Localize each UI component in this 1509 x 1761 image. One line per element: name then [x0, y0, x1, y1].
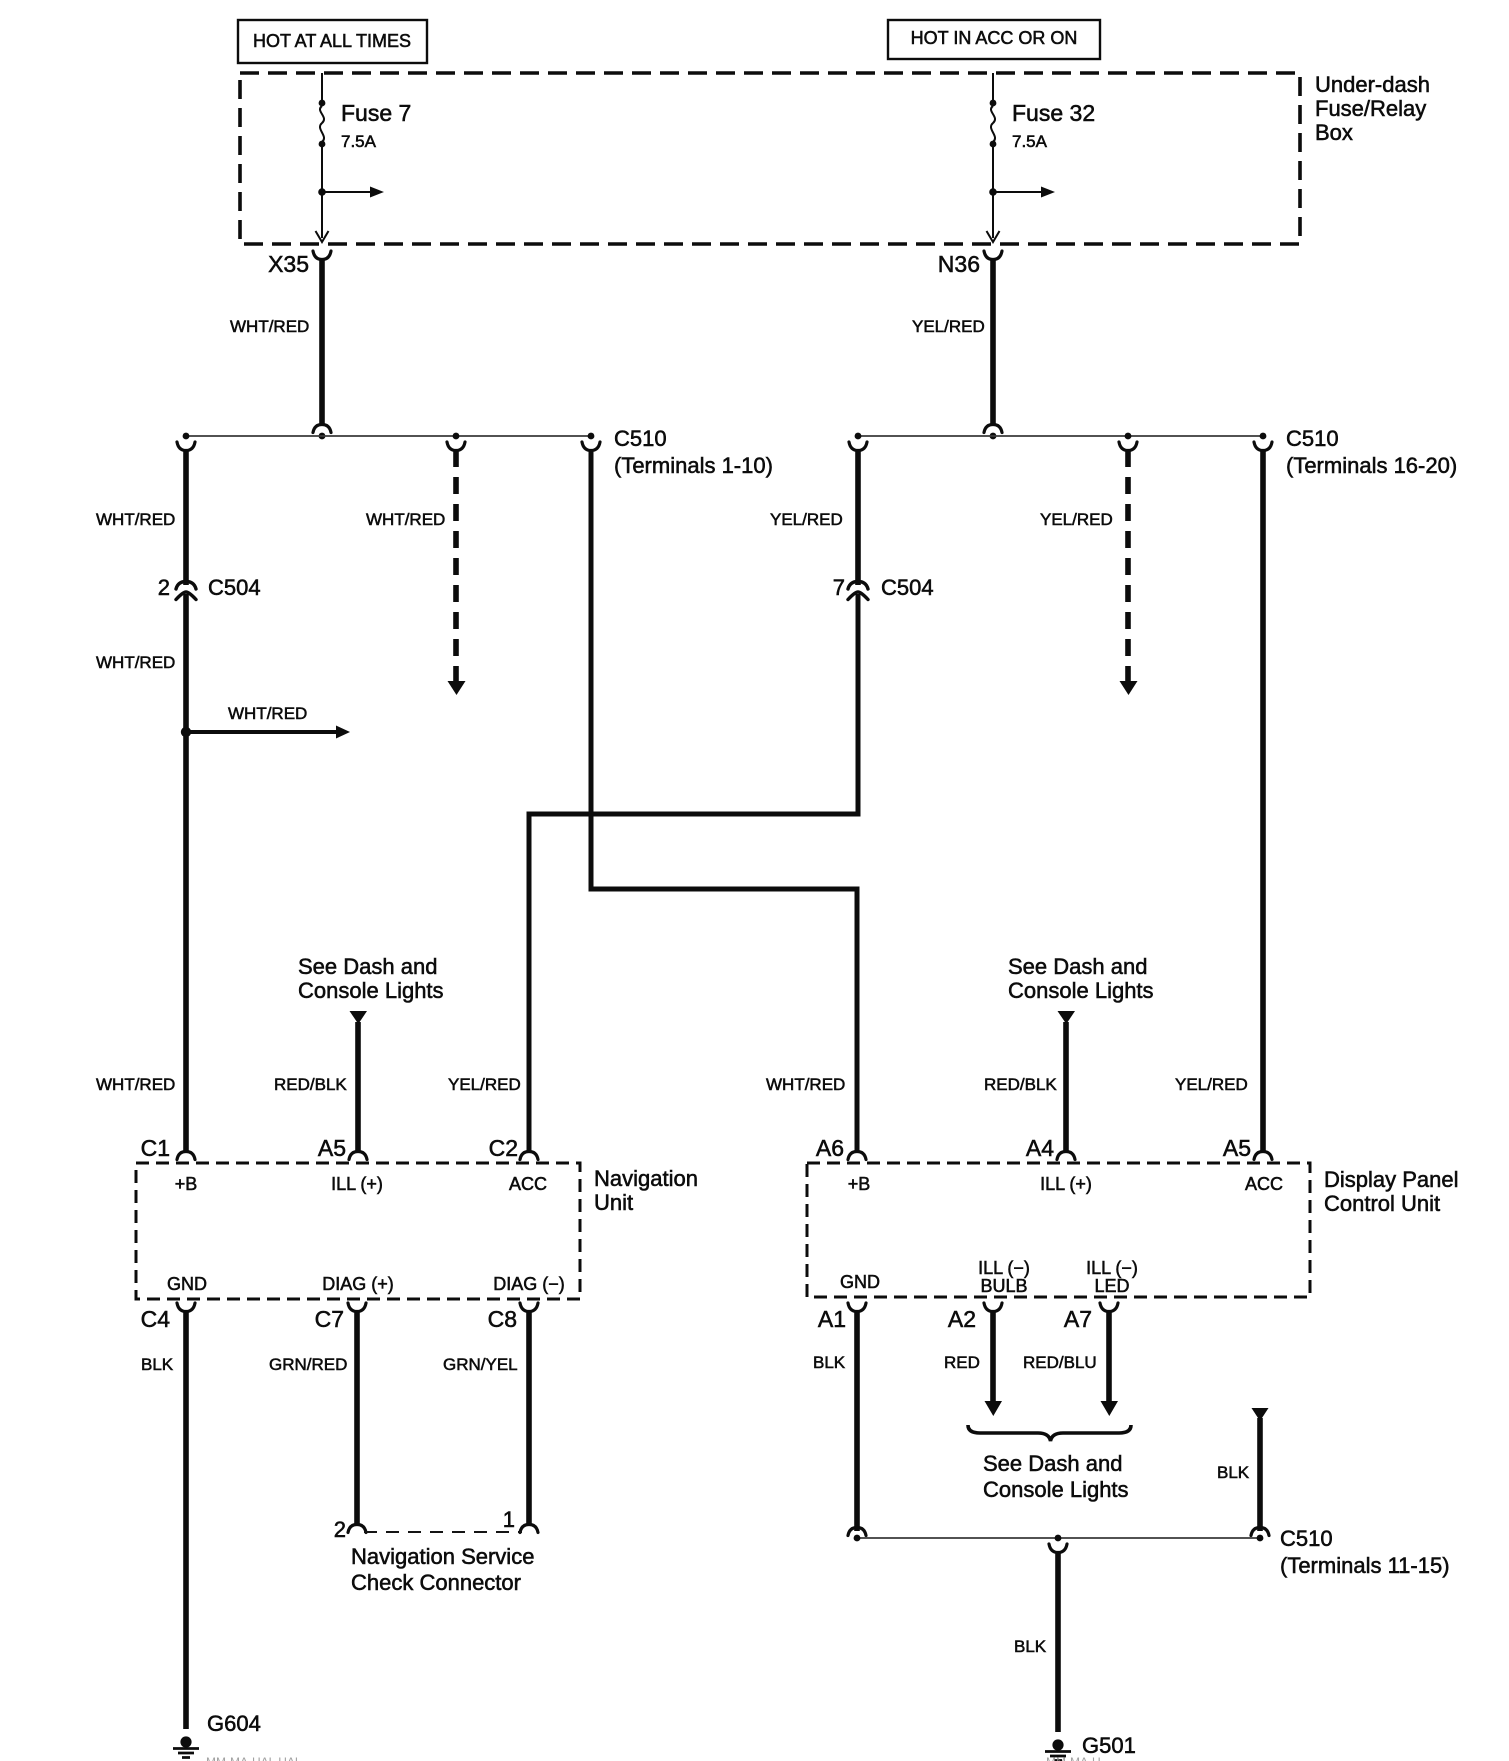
navigation unit box (dashed): [136, 1163, 580, 1299]
svg-text:See Dash and: See Dash and: [298, 954, 437, 979]
wire YEL/RED C510 to display A5: [1254, 442, 1272, 451]
svg-text:MM-MA-HAL HAL: MM-MA-HAL HAL: [206, 1755, 302, 1761]
svg-text:Box: Box: [1315, 120, 1353, 145]
svg-text:Control Unit: Control Unit: [1324, 1191, 1440, 1216]
fuse F7 feed wire: [321, 73, 323, 238]
fuse F32 branch arrow: [989, 188, 997, 196]
svg-text:A5: A5: [1223, 1135, 1251, 1161]
node C510 (Terminals 1-10) bus: [186, 435, 592, 437]
svg-text:Console Lights: Console Lights: [298, 978, 444, 1003]
wire WHT/RED C504 to junction: [183, 594, 189, 732]
svg-text:C510: C510: [614, 426, 667, 451]
fuse F32 output arrowhead: [987, 231, 1000, 242]
svg-text:C510: C510: [1280, 1526, 1333, 1551]
wire WHT/RED X35 to C510: [319, 259, 325, 424]
svg-text:ACC: ACC: [1245, 1174, 1283, 1194]
svg-text:Fuse 7: Fuse 7: [341, 100, 411, 126]
under-dash fuse/relay box (dashed): [240, 73, 1300, 244]
ground G501: [1052, 1739, 1063, 1750]
svg-text:See Dash and: See Dash and: [983, 1451, 1122, 1476]
svg-text:+B: +B: [848, 1174, 871, 1194]
svg-text:YEL/RED: YEL/RED: [770, 510, 843, 529]
svg-text:A1: A1: [818, 1306, 846, 1332]
node C510 (Terminals 11-15) bus: [857, 1537, 1260, 1539]
svg-text:ACC: ACC: [509, 1174, 547, 1194]
svg-text:Console Lights: Console Lights: [1008, 978, 1154, 1003]
svg-text:Display Panel: Display Panel: [1324, 1167, 1459, 1192]
svg-text:7.5A: 7.5A: [341, 132, 377, 151]
brace grouping A2/A7: [968, 1425, 1131, 1441]
svg-text:WHT/RED: WHT/RED: [228, 704, 307, 723]
navigation service check connector (dashed link): [364, 1531, 522, 1533]
svg-text:See Dash and: See Dash and: [1008, 954, 1147, 979]
svg-text:C4: C4: [141, 1306, 171, 1332]
wire RED/BLU from A7 (to dash lights): [1106, 1311, 1112, 1402]
svg-text:RED/BLU: RED/BLU: [1023, 1353, 1097, 1372]
svg-text:ILL (−): ILL (−): [1086, 1258, 1138, 1278]
svg-text:C7: C7: [315, 1306, 344, 1332]
svg-text:YEL/RED: YEL/RED: [1040, 510, 1113, 529]
svg-text:WHT/RED: WHT/RED: [366, 510, 445, 529]
display panel control unit box (dashed): [807, 1163, 1310, 1297]
svg-text:C504: C504: [881, 575, 934, 600]
wire BLK display GND to C510: [854, 1311, 860, 1531]
fuse F32 element: [990, 100, 997, 107]
wire BLK navigation GND to G604: [183, 1311, 189, 1729]
svg-text:BULB: BULB: [980, 1276, 1027, 1296]
svg-text:WHT/RED: WHT/RED: [96, 653, 175, 672]
svg-text:GRN/YEL: GRN/YEL: [443, 1355, 518, 1374]
fuse F7 output arrowhead: [316, 231, 329, 242]
svg-text:Check Connector: Check Connector: [351, 1570, 521, 1595]
svg-text:GRN/RED: GRN/RED: [269, 1355, 347, 1374]
svg-text:BLK: BLK: [141, 1355, 174, 1374]
svg-text:Navigation: Navigation: [594, 1166, 698, 1191]
svg-text:YEL/RED: YEL/RED: [1175, 1075, 1248, 1094]
wire RED from A2 (to dash lights): [990, 1311, 996, 1402]
svg-text:BLK: BLK: [813, 1353, 846, 1372]
svg-text:(Terminals 1-10): (Terminals 1-10): [614, 453, 773, 478]
svg-text:Fuse 32: Fuse 32: [1012, 100, 1095, 126]
wire YEL/RED C504 to navigation C2 (crossover): [529, 594, 858, 1152]
wire YEL/RED N36 to C510: [990, 259, 996, 424]
svg-text:GND: GND: [167, 1274, 207, 1294]
svg-text:ILL (+): ILL (+): [1040, 1174, 1092, 1194]
svg-text:2: 2: [158, 575, 170, 600]
svg-text:7.5A: 7.5A: [1012, 132, 1048, 151]
svg-text:HOT AT ALL TIMES: HOT AT ALL TIMES: [253, 31, 411, 51]
svg-text:+B: +B: [175, 1174, 198, 1194]
svg-text:RED/BLK: RED/BLK: [984, 1075, 1057, 1094]
wire WHT/RED C510 to C504 pin 2: [177, 442, 195, 451]
svg-text:MM-MA-U: MM-MA-U: [1046, 1755, 1101, 1761]
wire GRN/RED to service check connector pin 2: [354, 1311, 360, 1524]
wire BLK C510 to G501: [1049, 1544, 1067, 1553]
svg-text:WHT/RED: WHT/RED: [96, 1075, 175, 1094]
svg-text:LED: LED: [1094, 1276, 1129, 1296]
svg-text:WHT/RED: WHT/RED: [766, 1075, 845, 1094]
svg-text:Unit: Unit: [594, 1190, 633, 1215]
ground G604: [180, 1736, 191, 1747]
svg-text:C504: C504: [208, 575, 261, 600]
svg-text:A2: A2: [948, 1306, 976, 1332]
svg-text:X35: X35: [268, 251, 309, 277]
svg-text:C8: C8: [488, 1306, 517, 1332]
svg-text:(Terminals 11-15): (Terminals 11-15): [1280, 1553, 1450, 1578]
fuse F7 element: [319, 100, 326, 107]
svg-text:WHT/RED: WHT/RED: [230, 317, 309, 336]
wire YEL/RED C510 to C504 pin 7: [849, 442, 867, 451]
svg-text:BLK: BLK: [1217, 1463, 1250, 1482]
dashed stub wire WHT/RED (C510 terminal): [447, 442, 465, 451]
power label box HOT IN ACC OR ON: [888, 20, 1100, 59]
svg-text:WHT/RED: WHT/RED: [96, 510, 175, 529]
svg-text:GND: GND: [840, 1272, 880, 1292]
connector C504 pin 2: [176, 582, 196, 600]
svg-text:Under-dash: Under-dash: [1315, 72, 1430, 97]
svg-text:DIAG (−): DIAG (−): [493, 1274, 565, 1294]
wire WHT/RED junction to navigation unit C1: [183, 732, 189, 1152]
svg-text:BLK: BLK: [1014, 1637, 1047, 1656]
svg-text:Navigation Service: Navigation Service: [351, 1544, 534, 1569]
svg-text:Console Lights: Console Lights: [983, 1477, 1129, 1502]
svg-text:ILL (+): ILL (+): [331, 1174, 383, 1194]
svg-text:1: 1: [503, 1507, 515, 1532]
node C510 (Terminals 16-20) bus: [858, 435, 1263, 437]
fuse F7 branch arrow: [318, 188, 326, 196]
svg-text:N36: N36: [938, 251, 980, 277]
svg-text:ILL (−): ILL (−): [978, 1258, 1030, 1278]
wire BLK incoming to C510 terminal: [1252, 1408, 1269, 1421]
svg-text:HOT IN ACC OR ON: HOT IN ACC OR ON: [911, 28, 1078, 48]
wire RED/BLK to display A4: [1058, 1011, 1076, 1024]
svg-text:Fuse/Relay: Fuse/Relay: [1315, 96, 1426, 121]
svg-text:A6: A6: [816, 1135, 844, 1161]
svg-text:YEL/RED: YEL/RED: [912, 317, 985, 336]
svg-text:A4: A4: [1026, 1135, 1054, 1161]
wire WHT/RED C510 to display A6 (crossover): [582, 442, 600, 451]
svg-text:G604: G604: [207, 1711, 261, 1736]
svg-text:A5: A5: [318, 1135, 346, 1161]
wire RED/BLK to navigation A5: [350, 1011, 368, 1024]
svg-text:RED: RED: [944, 1353, 980, 1372]
junction node with branch arrow WHT/RED: [181, 727, 191, 737]
connector C504 pin 7: [848, 582, 868, 600]
svg-text:YEL/RED: YEL/RED: [448, 1075, 521, 1094]
svg-text:DIAG (+): DIAG (+): [322, 1274, 394, 1294]
wire GRN/YEL to service check connector pin 1: [526, 1311, 532, 1524]
svg-text:7: 7: [833, 575, 845, 600]
svg-text:RED/BLK: RED/BLK: [274, 1075, 347, 1094]
svg-text:C2: C2: [489, 1135, 518, 1161]
power label box HOT AT ALL TIMES: [238, 20, 427, 63]
svg-text:2: 2: [334, 1517, 346, 1542]
svg-text:A7: A7: [1064, 1306, 1092, 1332]
fuse F32 feed wire: [992, 73, 994, 238]
svg-text:C1: C1: [141, 1135, 170, 1161]
svg-text:C510: C510: [1286, 426, 1339, 451]
dashed stub wire YEL/RED (C510 terminal): [1119, 442, 1137, 451]
svg-text:(Terminals 16-20): (Terminals 16-20): [1286, 453, 1457, 478]
label Under-dash Fuse/Relay Box: [1315, 72, 1430, 145]
